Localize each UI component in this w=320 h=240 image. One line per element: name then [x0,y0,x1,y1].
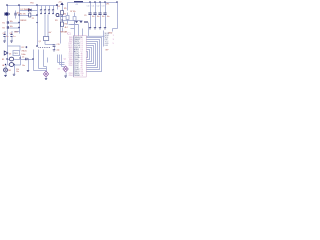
svg-text:TR1: TR1 [30,3,34,5]
svg-text:IC1: IC1 [67,33,71,36]
svg-text:R4: R4 [65,23,67,25]
svg-text:C12: C12 [97,6,100,8]
svg-text:10k: 10k [10,26,13,28]
svg-text:D3: D3 [9,54,11,56]
svg-text:10k: 10k [10,21,13,23]
svg-text:C9: C9 [84,15,86,17]
svg-text:100n: 100n [14,31,18,33]
svg-text:R7 10k: R7 10k [70,11,76,13]
svg-text:R2: R2 [2,27,4,29]
svg-text:C4: C4 [10,33,12,35]
svg-text:1u: 1u [13,36,15,38]
svg-text:C10: C10 [87,6,90,8]
svg-text:R1: R1 [2,22,4,24]
svg-text:1u: 1u [6,36,8,38]
svg-text:78L05: 78L05 [21,51,26,53]
svg-text:10n: 10n [92,16,95,18]
svg-text:PD4: PD4 [69,75,73,77]
svg-text:22p: 22p [57,50,60,52]
svg-text:R5: R5 [64,8,66,10]
svg-text:IC2: IC2 [21,47,24,49]
svg-text:D2: D2 [58,6,60,8]
svg-text:1N4148: 1N4148 [20,20,26,22]
svg-text:Z1: Z1 [32,18,34,20]
svg-text:C11: C11 [92,6,95,8]
svg-text:R2 47k: R2 47k [20,14,26,16]
svg-text:R3: R3 [55,20,57,22]
svg-text:10u: 10u [22,65,25,67]
svg-text:MEGA8: MEGA8 [61,31,68,34]
svg-text:Q2: Q2 [39,41,41,43]
svg-text:B1: B1 [2,59,4,61]
svg-text:M1: M1 [8,70,11,72]
svg-text:JP1: JP1 [106,3,109,5]
svg-text:10n: 10n [97,16,100,18]
svg-text:C13: C13 [102,6,105,8]
svg-text:4u7: 4u7 [49,32,52,34]
svg-text:C3: C3 [3,33,5,35]
svg-text:C5: C5 [22,57,24,59]
svg-text:10n: 10n [102,16,105,18]
svg-text:PD2: PD2 [69,65,73,67]
svg-text:10n: 10n [107,16,110,18]
svg-text:PB3/M: PB3/M [74,75,80,77]
svg-text:R6: R6 [64,13,66,15]
svg-text:4k7: 4k7 [65,27,68,29]
svg-text:Q1: Q1 [64,58,67,60]
svg-text:10n: 10n [16,71,19,73]
svg-text:C15: C15 [57,44,60,46]
svg-text:D1 1N4004: D1 1N4004 [21,9,31,11]
